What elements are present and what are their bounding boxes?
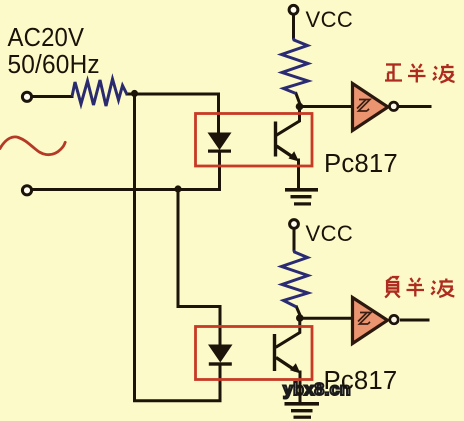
svg-text:VCC: VCC	[306, 221, 354, 246]
svg-text:VCC: VCC	[306, 7, 354, 32]
svg-text:Pc817: Pc817	[324, 367, 398, 395]
svg-text:AC20V: AC20V	[8, 23, 85, 52]
svg-text:Pc817: Pc817	[324, 150, 398, 178]
svg-text:50/60Hz: 50/60Hz	[8, 50, 100, 79]
